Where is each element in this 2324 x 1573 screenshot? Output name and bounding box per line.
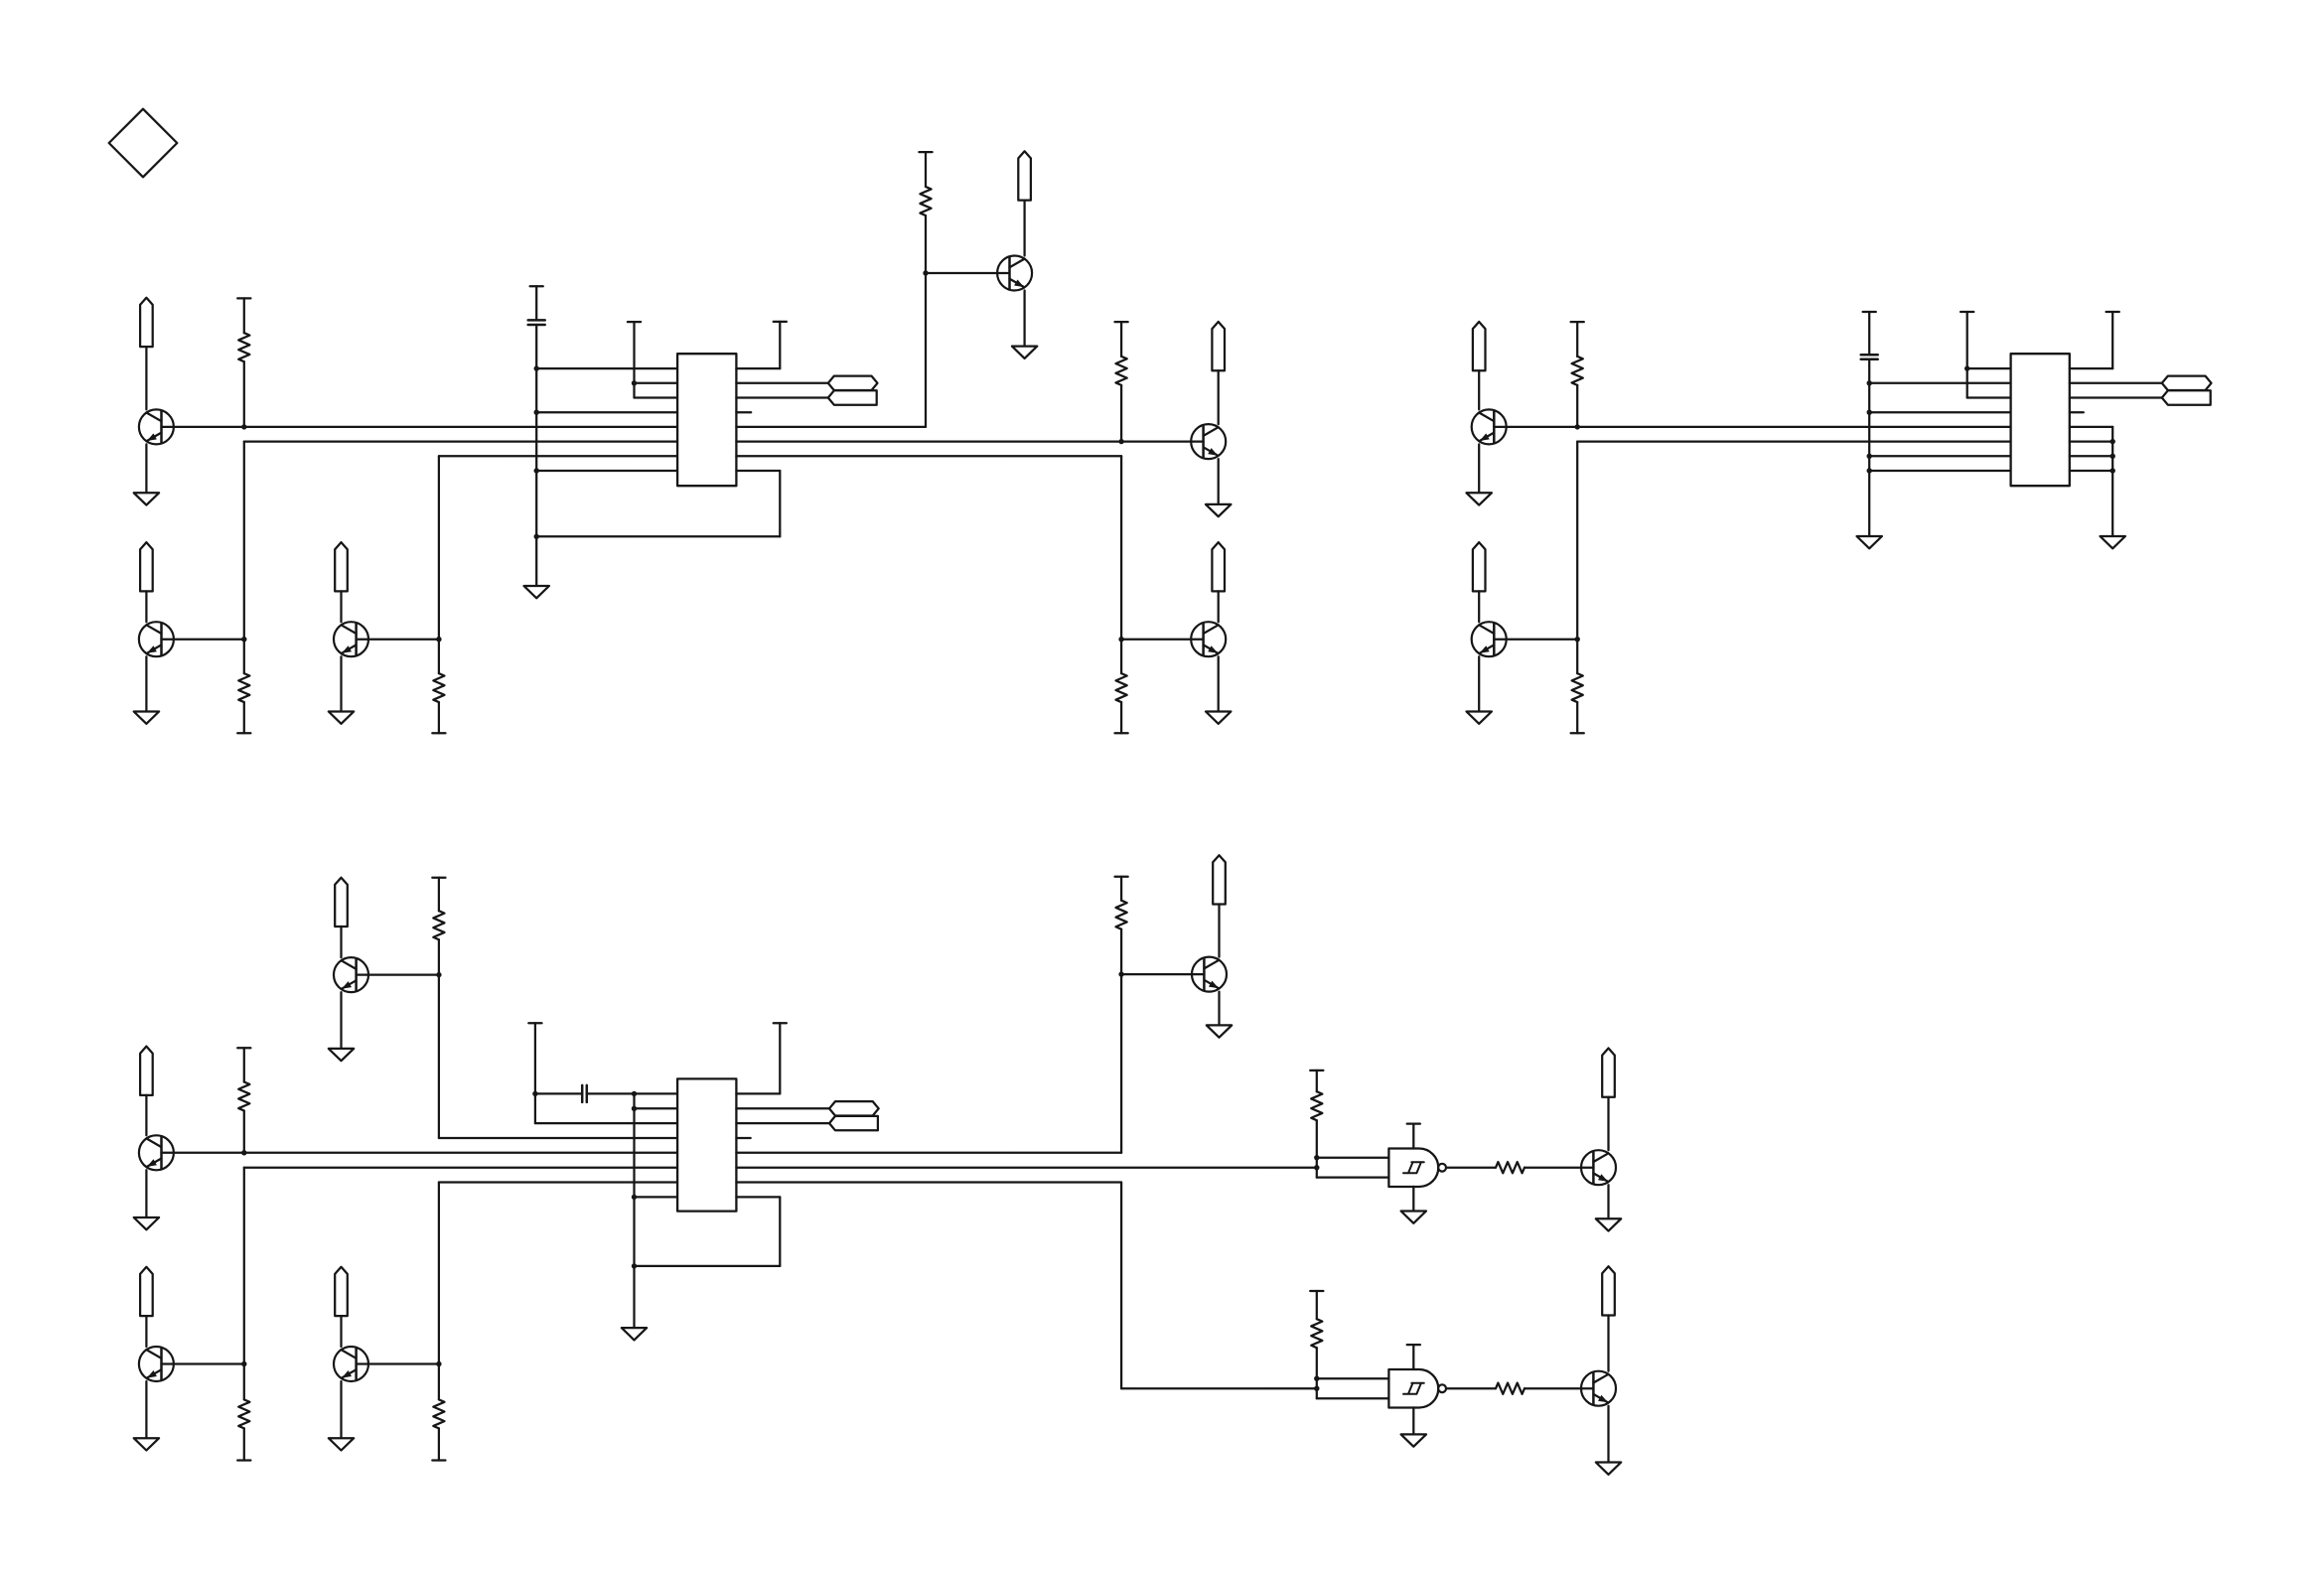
wire gate1 jog <box>1316 1158 1318 1178</box>
wire Q3 emitter <box>340 656 342 711</box>
global label L2 <box>828 390 877 404</box>
transistor Q13 <box>1192 957 1227 992</box>
wire Q15 collector <box>1607 1316 1609 1371</box>
power flag PWR10 <box>140 1047 153 1095</box>
wire Q1 collector <box>145 347 147 409</box>
wire Q4 collector <box>1023 201 1025 256</box>
wire U2 L3 <box>1967 396 2011 398</box>
junction C2 pin7 <box>1867 454 1872 459</box>
resistor R8 <box>1571 640 1584 734</box>
gate1 gnd pin <box>1412 1187 1414 1212</box>
wire net Cb vertical <box>438 1183 440 1364</box>
ground GND19 <box>1596 1218 1621 1230</box>
junction Vb loop <box>632 1263 637 1268</box>
junction Q11 base <box>241 1361 246 1366</box>
power flag PWR5 <box>1212 322 1225 370</box>
junction C1 pin4 <box>534 410 539 415</box>
wire U2 gnd riser <box>2111 427 2113 536</box>
junction Q10-R10 <box>241 1150 246 1155</box>
ground GND12 <box>329 1049 354 1061</box>
junction C2 pin2 <box>1867 380 1872 385</box>
resistor R9 <box>432 878 445 975</box>
wire U3 L4 <box>439 1137 677 1139</box>
wire Q7 base net <box>1494 426 2010 428</box>
wire Q11 collector <box>145 1316 147 1347</box>
wire Q8 collector <box>1478 591 1480 622</box>
wire to label 5 <box>736 1107 829 1109</box>
resistor R6 <box>1115 640 1128 734</box>
global label L1 <box>828 376 878 390</box>
capacitor C2 <box>1861 312 1878 536</box>
wire Q6 base <box>1121 639 1204 641</box>
wire Q10 base net <box>162 1152 678 1154</box>
wire Q3 collector <box>340 591 342 622</box>
wire U1 R7 <box>736 455 1121 457</box>
junction Q5 base <box>1118 439 1123 444</box>
wire net B vertical <box>243 442 245 640</box>
wire Q12 base <box>357 1362 439 1364</box>
wire U3 R5 <box>736 1152 1121 1154</box>
ground GND11 <box>2101 536 2125 548</box>
junction C2 pin4 <box>1867 410 1872 415</box>
capacitor C1 <box>528 286 545 586</box>
wire net C vertical <box>438 456 440 639</box>
wire Q2 collector <box>145 591 147 622</box>
wire R7 drop <box>1120 456 1122 639</box>
wire Q13 base <box>1121 973 1204 975</box>
wire U3 R1 <box>736 1092 780 1094</box>
wire Q12 collector <box>340 1316 342 1347</box>
transistor Q3 <box>334 622 368 656</box>
wire Q1 base net <box>162 426 678 428</box>
power flag PWR15 <box>1602 1266 1615 1315</box>
wire Q13 emitter <box>1218 992 1220 1026</box>
junction Q4 base <box>923 270 928 275</box>
wire Q9 base <box>357 973 439 975</box>
ground GND17 <box>1207 1025 1232 1037</box>
wire Q4 emitter <box>1023 291 1025 347</box>
junction Q6 base <box>1118 637 1123 642</box>
gate2 vcc pin <box>1407 1345 1420 1369</box>
wire U3 L1 <box>635 1092 678 1094</box>
wire R15 to Q14 <box>1525 1167 1593 1169</box>
resistor R15 <box>1496 1162 1525 1173</box>
wire U1 R8 <box>736 470 780 472</box>
wire U2 R1 <box>2070 367 2112 369</box>
wire to label 2 <box>736 396 827 398</box>
wire U1 L1 <box>536 367 677 369</box>
wire to label 6 <box>736 1122 829 1124</box>
wire net Bb vertical <box>243 1168 245 1364</box>
stub line T6 <box>774 1023 787 1093</box>
ground GND14 <box>134 1438 159 1450</box>
wire U1 R6 <box>736 440 1203 442</box>
wire U1 L4 <box>536 411 677 413</box>
junction U2 R8 <box>2110 468 2115 473</box>
junction gate2 net <box>1314 1386 1319 1391</box>
wire U1 L2 <box>635 382 678 384</box>
wire Q10 collector <box>145 1095 147 1135</box>
stub pin U1 R4 <box>736 411 751 413</box>
wire Q15 emitter <box>1607 1406 1609 1463</box>
wire U2 L1 <box>1967 367 2011 369</box>
wire Q6 emitter <box>1218 656 1220 711</box>
resistor R13 <box>1115 877 1128 974</box>
wire U3 R6 to gate1 <box>736 1167 1316 1169</box>
stub line T4 <box>2106 312 2119 368</box>
power flag PWR8 <box>1473 542 1486 591</box>
schmitt NAND gate U4A <box>1388 1149 1446 1188</box>
wire Q9 net drop <box>438 975 440 1138</box>
wire U3 L2 <box>635 1107 678 1109</box>
stub pin U2 R4 <box>2070 411 2084 413</box>
junction Vb r8 <box>632 1195 637 1200</box>
wire Q14 collector <box>1607 1097 1609 1150</box>
resistor R3 <box>432 640 445 734</box>
ground GND7 <box>1206 712 1231 724</box>
power flag PWR3 <box>335 542 348 591</box>
wire R17 to Q15 <box>1525 1387 1593 1389</box>
wire U2 L7 <box>1869 455 2010 457</box>
wire U3 R8 <box>736 1196 780 1198</box>
wire Q12 emitter <box>340 1381 342 1438</box>
junction T3 <box>1964 365 1969 370</box>
junction Q13 base <box>1118 971 1123 976</box>
wire Q9 collector <box>340 927 342 957</box>
wire Q4 base <box>926 272 1009 274</box>
ground GND1 <box>134 493 159 504</box>
junction Q7-R7 <box>1575 424 1580 429</box>
transistor Q5 <box>1191 424 1226 459</box>
wire gate2 output <box>1446 1387 1496 1389</box>
wire U2 L4 <box>1869 411 2010 413</box>
transistor Q8 <box>1472 622 1507 656</box>
transistor Q9 <box>334 957 368 992</box>
junction Q8 base <box>1575 637 1580 642</box>
ground GND20 <box>1401 1434 1426 1446</box>
resistor R1 <box>237 298 250 427</box>
wire net Cb horizontal <box>439 1181 677 1183</box>
resistor R7 <box>1571 322 1584 427</box>
wire U2 R5 <box>2070 426 2112 428</box>
wire U1 L8 <box>536 470 677 472</box>
wire net C horizontal <box>439 455 677 457</box>
wire Q11 base <box>162 1362 244 1364</box>
power flag PWR12 <box>335 1267 348 1316</box>
transistor Q10 <box>139 1135 174 1170</box>
wire net Bb horizontal <box>244 1167 677 1169</box>
transistor Q2 <box>139 622 174 656</box>
wire Q8 emitter <box>1478 656 1480 711</box>
stub line T5 <box>528 1023 541 1123</box>
junction Vb r1 <box>632 1091 637 1096</box>
resistor R4 <box>919 152 932 273</box>
ground GND16 <box>622 1328 647 1340</box>
ground GND9 <box>1467 712 1492 724</box>
wire U2 R7 <box>2070 455 2112 457</box>
power flag PWR1 <box>140 298 153 347</box>
junction Q9 base <box>436 972 441 977</box>
wire to label 1 <box>736 382 827 384</box>
wire gate2 input A <box>1317 1377 1389 1379</box>
transistor Q14 <box>1581 1150 1616 1185</box>
transistor Q4 <box>997 256 1032 291</box>
power flag PWR14 <box>1602 1049 1615 1097</box>
junction T1 <box>632 380 637 385</box>
wire Q14 emitter <box>1607 1185 1609 1218</box>
power flag PWR11 <box>140 1267 153 1316</box>
wire gate1 output <box>1446 1167 1496 1169</box>
wire Q7 collector <box>1478 370 1480 409</box>
wire Q9 emitter <box>340 992 342 1049</box>
wire U3 L3 <box>535 1122 677 1124</box>
power flag PWR4 <box>1018 151 1031 200</box>
ground GND18 <box>1401 1212 1426 1223</box>
wire Q13 collector <box>1218 905 1220 957</box>
wire U2 R6 <box>2070 440 2112 442</box>
junction C1 pin8 <box>534 468 539 473</box>
stub line T3 <box>1961 312 1973 398</box>
wire gate1 input A <box>1317 1157 1389 1159</box>
junction Q12 base <box>436 1361 441 1366</box>
transistor Q1 <box>139 409 174 444</box>
wire U3 R7 <box>736 1181 1121 1183</box>
wire gate1 input B <box>1317 1176 1389 1178</box>
global label L4 <box>2162 390 2211 404</box>
wire Q8 base <box>1494 639 1577 641</box>
wire Q7 emitter <box>1478 444 1480 493</box>
transistor Q15 <box>1581 1371 1616 1406</box>
junction gate1 net <box>1314 1165 1319 1170</box>
wire gnd rail Vb <box>633 1093 635 1328</box>
power flag PWR9 <box>335 878 348 927</box>
resistor R12 <box>432 1364 445 1461</box>
junction T5 <box>532 1091 537 1096</box>
ground GND15 <box>329 1438 354 1450</box>
junction C2 pin8 <box>1867 468 1872 473</box>
wire loop right drop b <box>779 1197 781 1266</box>
wire to label 3 <box>2070 382 2162 384</box>
global label L3 <box>2162 376 2212 390</box>
transistor Q12 <box>334 1347 368 1381</box>
wire gate2 input B <box>1317 1397 1389 1399</box>
power flag PWR2 <box>140 542 153 591</box>
resistor R17 <box>1496 1383 1525 1394</box>
wire net B2 vertical <box>1576 442 1578 640</box>
wire gate2 jog <box>1316 1378 1318 1398</box>
IC U1 <box>677 354 736 486</box>
IC U2 <box>2011 354 2070 486</box>
junction C1 pin1 <box>534 365 539 370</box>
ground GND2 <box>134 712 159 724</box>
wire Q10 emitter <box>145 1170 147 1217</box>
resistor R2 <box>237 640 250 734</box>
stub line T2 <box>774 322 787 368</box>
wire loop right drop <box>779 471 781 536</box>
wire U1 loop bottom <box>536 535 780 537</box>
wire Q3 base <box>357 639 439 641</box>
resistor R10 <box>237 1048 250 1153</box>
wire R5 riser <box>925 273 927 427</box>
stub line T1 <box>628 322 641 397</box>
IC U3 <box>677 1078 736 1211</box>
wire R5b riser <box>1120 974 1122 1153</box>
wire U2 L2 <box>1869 382 2010 384</box>
junction Q1-R1 <box>241 424 246 429</box>
wire Q6 collector <box>1218 591 1220 622</box>
gate1 vcc pin <box>1407 1124 1420 1149</box>
wire R7b drop <box>1120 1183 1122 1389</box>
wire net B2 horizontal <box>1577 440 2010 442</box>
wire U3 L8 <box>635 1196 678 1198</box>
wire to gate2 <box>1121 1387 1317 1389</box>
junction Vb r2 <box>632 1106 637 1111</box>
ground GND4 <box>524 586 549 598</box>
transistor Q11 <box>139 1347 174 1381</box>
ground GND5 <box>1012 347 1037 358</box>
resistor R16 <box>1310 1291 1323 1378</box>
ground GND3 <box>329 712 354 724</box>
wire U2 L8 <box>1869 470 2010 472</box>
wire Q2 emitter <box>145 656 147 711</box>
ground GND6 <box>1206 504 1231 516</box>
junction gate1 inA <box>1314 1155 1319 1160</box>
resistor R14 <box>1310 1071 1323 1158</box>
transistor Q7 <box>1472 409 1507 444</box>
gate2 gnd pin <box>1412 1407 1414 1434</box>
wire Q5 collector <box>1218 370 1220 424</box>
wire Q1 emitter <box>145 444 147 493</box>
ground GND13 <box>134 1217 159 1229</box>
schmitt NAND gate U4B <box>1388 1369 1446 1408</box>
junction Q3 base <box>436 637 441 642</box>
ground GND8 <box>1467 493 1492 504</box>
junction U2 R6 <box>2110 439 2115 444</box>
resistor R11 <box>237 1364 250 1461</box>
ground GND21 <box>1596 1463 1621 1475</box>
wire U2 R8 <box>2070 470 2112 472</box>
wire to label 4 <box>2070 396 2162 398</box>
wire U3 loop bottom <box>635 1265 781 1267</box>
junction gate2 inA <box>1314 1376 1319 1381</box>
power flag PWR6 <box>1212 542 1225 591</box>
wire Q11 emitter <box>145 1381 147 1438</box>
wire U1 R1 <box>736 367 780 369</box>
wire net B horizontal <box>244 440 677 442</box>
transistor Q6 <box>1191 622 1226 656</box>
resistor R5 <box>1115 322 1128 442</box>
global label L5 <box>829 1101 879 1115</box>
wire Q2 base <box>162 639 244 641</box>
global label L6 <box>829 1116 878 1130</box>
power flag PWR13 <box>1213 855 1226 904</box>
capacitor C3 <box>535 1085 635 1102</box>
junction Q2 base <box>241 637 246 642</box>
junction U2 R7 <box>2110 454 2115 459</box>
wire U1 L3 <box>635 396 678 398</box>
wire Q5 emitter <box>1218 459 1220 504</box>
power flag PWR7 <box>1473 322 1486 370</box>
stub pin U3 R4 <box>736 1137 750 1139</box>
wire U1 R5 <box>736 426 926 428</box>
ground GND10 <box>1857 536 1882 548</box>
junction C1 loop <box>534 534 539 539</box>
sheet marker diamond <box>109 109 178 178</box>
